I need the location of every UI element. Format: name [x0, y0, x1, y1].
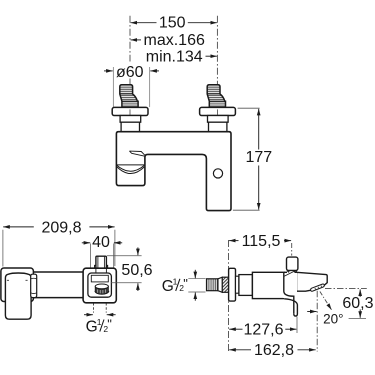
- left connector cylinder: [120, 116, 141, 123]
- 20 degree pointer arrow: [307, 311, 316, 313]
- aerator rim lower arc: [95, 291, 109, 294]
- vertical reference line at spout tip: [316, 291, 318, 352]
- dimension min.134: [206, 55, 217, 57]
- set screw circle: [213, 169, 222, 178]
- neck section: [236, 276, 239, 293]
- handle bracket strip: [31, 274, 37, 297]
- sloped 20 degree reference line: [320, 292, 332, 310]
- svg-text:": ": [183, 276, 188, 291]
- svg-text:min.134: min.134: [146, 49, 203, 66]
- upper chamber rect: [91, 275, 108, 282]
- lever handle top view: [5, 273, 31, 319]
- threaded inlet pipe: [207, 279, 219, 291]
- diverter knob side: [287, 257, 298, 270]
- svg-text:ø60: ø60: [116, 64, 144, 81]
- right flange escutcheon: [200, 107, 236, 115]
- right connector cylinder: [208, 116, 229, 123]
- svg-text:162,8: 162,8: [254, 342, 294, 359]
- svg-text:1: 1: [173, 276, 178, 286]
- left flange escutcheon: [112, 107, 148, 115]
- side flange escutcheon: [229, 268, 236, 301]
- lever tick marks: [7, 279, 28, 281]
- svg-text:40: 40: [92, 234, 110, 251]
- centerline right inlet: [216, 16, 218, 107]
- svg-text:115,5: 115,5: [242, 233, 281, 250]
- svg-text:150: 150: [159, 14, 186, 31]
- handle escutcheon block: [1, 268, 34, 302]
- aerator dark rim: [95, 287, 108, 295]
- dimension max.166: [131, 39, 141, 41]
- mixer body front outline: [116, 132, 231, 211]
- pipe taper: [218, 277, 222, 292]
- svg-text:60,3: 60,3: [342, 295, 373, 312]
- main body cylinder: [252, 272, 284, 298]
- diverter knob top view: [95, 256, 108, 268]
- dimension diameter 60: [104, 67, 159, 107]
- spout mouth chord: [117, 164, 144, 166]
- right wall union (threaded): [207, 85, 225, 108]
- locking ring: [222, 277, 228, 292]
- left riser: [121, 122, 139, 132]
- knob stem pass-through lines: [96, 268, 107, 273]
- lever handle side: [284, 272, 298, 316]
- upper body fill to spout: [283, 273, 297, 298]
- spout axis reference line horizontal: [325, 288, 367, 290]
- svg-text:max.166: max.166: [144, 32, 205, 49]
- spout side profile: [297, 272, 328, 291]
- body bar top view: [2, 272, 100, 298]
- spout mouth aerator band: [311, 284, 325, 291]
- spout shoulder wedge: [129, 151, 144, 156]
- svg-text:127,6: 127,6: [243, 322, 283, 339]
- knob centerline: [291, 243, 293, 256]
- spout mouth arc lower: [117, 167, 144, 174]
- svg-text:": ": [107, 317, 112, 332]
- svg-text:177: 177: [245, 149, 272, 166]
- right riser: [209, 122, 227, 132]
- svg-text:50,6: 50,6: [121, 262, 152, 279]
- spout mouth arc upper: [117, 165, 144, 171]
- left wall union (threaded): [120, 85, 138, 108]
- dimension 115,5: [229, 240, 291, 242]
- svg-text:20°: 20°: [323, 312, 343, 327]
- dimension 40: [82, 243, 122, 268]
- wall centerline: [228, 240, 230, 352]
- spout opening inner rect: [88, 273, 112, 297]
- outlet thread label G1/2 bottom: [84, 303, 116, 315]
- dimension 162,8: [229, 349, 316, 351]
- dimension 209,8: [3, 227, 115, 267]
- dimension 50,6: [107, 247, 142, 291]
- aerator face ellipse: [95, 284, 108, 289]
- inlet thread label G1/2 left: [188, 270, 205, 301]
- centerline left inlet: [129, 16, 131, 84]
- dimension 150: [131, 22, 217, 24]
- dimension 177: [233, 108, 260, 210]
- svg-text:1: 1: [97, 317, 102, 327]
- svg-text:209,8: 209,8: [41, 220, 81, 237]
- dimension 127,6: [229, 317, 297, 333]
- intermediate section: [239, 275, 253, 296]
- dimension 60,3: [349, 289, 366, 318]
- spout housing square: [83, 268, 116, 303]
